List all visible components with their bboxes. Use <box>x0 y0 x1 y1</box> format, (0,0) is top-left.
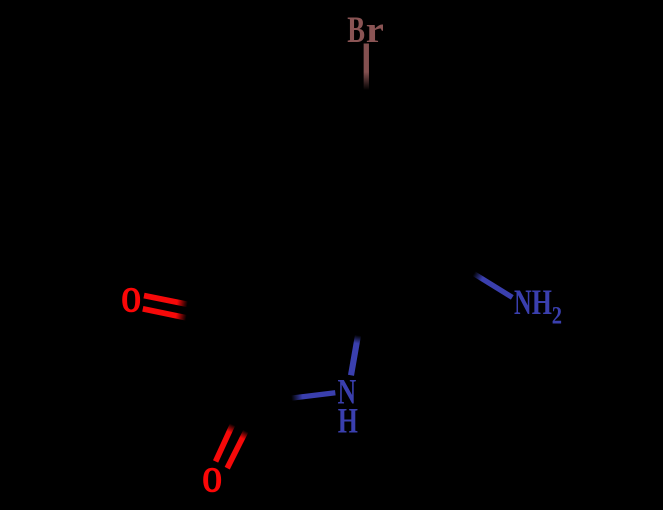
bond N1-C2 (nitrogen half, blue, fades to black) <box>291 393 335 398</box>
svg-text:H: H <box>532 282 552 322</box>
atom label NH2 (amino group) <box>514 282 562 329</box>
atom label H (on ring nitrogen N1) <box>338 400 358 440</box>
bond C2=O double bond left line (oxygen half, red, fades to black) <box>216 425 233 462</box>
atom label O (ketone oxygen on C3) <box>121 281 141 320</box>
atom label Br <box>347 10 384 51</box>
atom label N (ring nitrogen N1) <box>338 371 357 411</box>
svg-text:2: 2 <box>552 302 562 329</box>
bond C3=O double bond upper line (oxygen half, red, fades to black) <box>144 296 188 305</box>
bond C3=O double bond lower line <box>143 309 187 318</box>
bond Br-C5 (half, bromine colored, fades to carbon black) <box>364 44 369 92</box>
svg-text:O: O <box>121 281 141 320</box>
svg-text:N: N <box>514 282 532 322</box>
svg-text:B: B <box>347 10 365 50</box>
bond C2=O double bond right line <box>227 431 246 468</box>
svg-text:H: H <box>338 400 358 440</box>
bond N1-C7a (nitrogen half, blue, fades to black) <box>351 335 358 375</box>
bond C7-NH2 (nitrogen half, blue, fades to black) <box>474 274 513 298</box>
svg-text:O: O <box>202 461 222 500</box>
svg-text:r: r <box>366 10 384 51</box>
atom label O (amide oxygen on C2) <box>202 461 222 500</box>
